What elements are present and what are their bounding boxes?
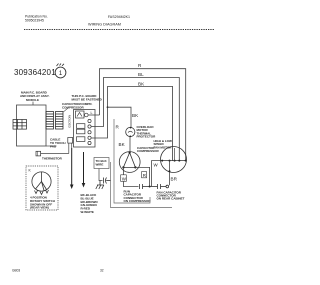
svg-text:BR: BR (171, 177, 178, 182)
leader wire to board (32, 102, 34, 105)
svg-text:(REAR VIEW): (REAR VIEW) (30, 206, 49, 210)
svg-text:BK: BK (138, 81, 145, 86)
wire BK riser (91, 87, 173, 161)
header dashed rule (24, 29, 214, 31)
label R compressor (142, 172, 147, 178)
svg-text:BK: BK (132, 113, 139, 118)
run capacitor C1 (140, 184, 150, 189)
wire to line capacitor (99, 169, 103, 181)
label W compressor (121, 175, 127, 182)
note text fan motor (154, 139, 173, 149)
note text capacitor compressor (62, 102, 93, 110)
arrow to switch 1 (70, 148, 74, 189)
wire fan BR lead (169, 161, 171, 186)
svg-text:ON COMPRESSOR: ON COMPRESSOR (124, 199, 152, 203)
wire BL riser (91, 78, 179, 161)
svg-text:COMPRESSOR: COMPRESSOR (62, 105, 85, 109)
svg-text:32: 32 (100, 269, 104, 273)
note text main p.c. board (20, 91, 50, 102)
relay output circle (85, 113, 89, 117)
wire compressor W lead (123, 167, 138, 186)
wire fan W lead (152, 161, 161, 187)
terminal circles column (88, 119, 91, 144)
svg-text:BL: BL (138, 72, 144, 77)
fan motor M2 (161, 147, 187, 173)
svg-text:WIRE: WIRE (96, 163, 104, 167)
node capacitor junction (149, 186, 151, 188)
note text power board fastened (72, 94, 103, 102)
svg-text:COMPRESSOR: COMPRESSOR (137, 149, 160, 153)
svg-text:GB03: GB03 (12, 269, 20, 273)
note text compressor (137, 146, 160, 153)
rotary switch S1 dotted box (26, 166, 58, 210)
relay K1 (76, 111, 85, 118)
note text run capacitor (124, 190, 152, 204)
svg-text:MOLDED: MOLDED (68, 115, 72, 129)
overload protector OL1 (126, 127, 135, 138)
svg-text:R: R (143, 173, 146, 178)
svg-text:W-WHITE: W-WHITE (81, 210, 94, 214)
vertical label molded cord (68, 115, 75, 129)
wire color legend (81, 193, 98, 214)
revision symbol circle 1 (55, 64, 66, 78)
note box to blk wire (94, 158, 109, 169)
node BK junction (107, 106, 109, 108)
power connector grid on board edge (13, 120, 27, 130)
line capacitor C3 (104, 178, 111, 184)
svg-text:THERMISTOR: THERMISTOR (42, 156, 63, 160)
arrow to switch 2 (82, 152, 86, 188)
svg-text:PAD: PAD (50, 145, 57, 149)
touch pad cable note (50, 138, 66, 149)
edge connector ladder B (56, 112, 64, 130)
svg-text:ON REAR CABINET: ON REAR CABINET (157, 197, 185, 201)
wire R riser (100, 69, 186, 161)
leader from connector to note (64, 108, 69, 112)
wire overload to compressor (129, 137, 131, 152)
wire BK branch to compressor (108, 107, 132, 127)
svg-text:5995023945: 5995023945 (25, 19, 44, 23)
svg-text:L: L (91, 111, 93, 115)
cabinet box inner (114, 119, 150, 203)
wire L to R riser (88, 114, 99, 116)
header publication note (25, 15, 48, 23)
cabinet box outer (111, 162, 173, 208)
relay power board U2 (74, 110, 96, 148)
compressor M1 (119, 152, 140, 173)
note text overload protector (137, 125, 157, 139)
rotary switch note (30, 196, 55, 210)
ground (96, 181, 104, 190)
thermistor connector (36, 138, 73, 156)
svg-text:WIRING DIAGRAM: WIRING DIAGRAM (88, 23, 121, 27)
component rectangles on relay board (77, 124, 85, 142)
note text fan capacitor (157, 190, 185, 200)
edge connector ladder A (46, 112, 54, 130)
wire compressor R lead (135, 167, 149, 186)
rotary switch circle (32, 172, 51, 195)
svg-text:BK: BK (119, 142, 126, 147)
fan capacitor C2 (150, 184, 169, 189)
svg-text:FAN MOTOR: FAN MOTOR (154, 145, 173, 149)
svg-text:PROTECTOR: PROTECTOR (137, 135, 157, 139)
svg-text:FAS294M2K1: FAS294M2K1 (108, 15, 130, 19)
svg-text:MODULE: MODULE (26, 98, 39, 102)
svg-text:309364201: 309364201 (14, 68, 56, 77)
control board U1 (17, 105, 47, 146)
